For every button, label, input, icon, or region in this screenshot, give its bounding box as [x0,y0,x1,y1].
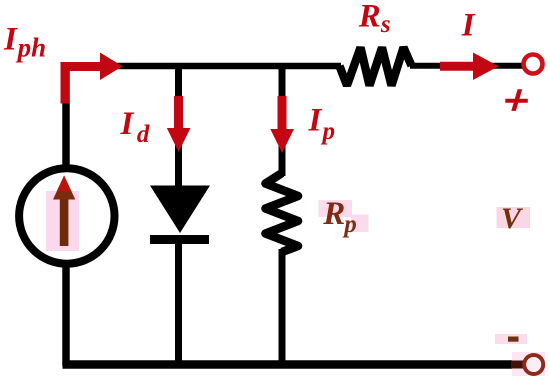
resistor Rs (series, zigzag) [340,48,412,86]
diode D1 cathode bar [150,235,209,244]
svg-text:I: I [461,8,476,44]
svg-text:V: V [501,202,524,235]
label Rp [322,196,357,238]
wire: Rp branch upper [279,63,286,176]
current source arrow (upward, brown) [53,176,75,247]
terminal - (open circle, brown) [524,355,543,374]
label V (output voltage) [501,202,524,235]
terminal + (open circle, red) [524,55,543,74]
label Ip [308,103,336,145]
label Id [120,106,150,148]
label I (output current) [461,8,476,44]
highlight box behind - terminal [512,352,545,376]
svg-text:Id: Id [120,106,150,148]
wire: left vertical lower (current source to bottom bus) [62,264,70,366]
wire: left vertical upper (node A to current source) [62,63,70,168]
current arrow Id (red, downward) [167,96,191,152]
label Iph [3,22,46,63]
current source U1 circle [19,168,114,263]
current arrow Iph (red elbow with arrowhead) [65,53,123,104]
wire stub to - terminal (dark maroon) [511,361,524,369]
wire: bottom bus [63,360,534,365]
current arrow I (red, rightward) [440,53,499,81]
label + (positive terminal) [505,89,528,111]
current arrow Ip (red, downward) [270,96,294,153]
wire: Rp branch lower [279,249,286,364]
wire: diode branch upper [175,63,182,190]
svg-text:Iph: Iph [3,22,46,63]
highlight box behind V [497,207,531,228]
highlight box behind source arrow [46,191,79,251]
label Rs [358,0,391,38]
diode D1 triangle [150,186,210,234]
wire: top bus right segment (Rs to + terminal) [410,63,523,69]
highlight boxes behind Rp label [319,200,369,232]
wire: top bus left segment [66,63,341,70]
label - (negative terminal) [508,337,519,342]
svg-text:Ip: Ip [308,103,336,145]
resistor Rp (shunt, vertical zigzag) [266,173,299,252]
wire: diode branch lower [175,240,182,364]
svg-text:Rs: Rs [358,0,391,38]
highlight box behind - label [495,334,527,344]
